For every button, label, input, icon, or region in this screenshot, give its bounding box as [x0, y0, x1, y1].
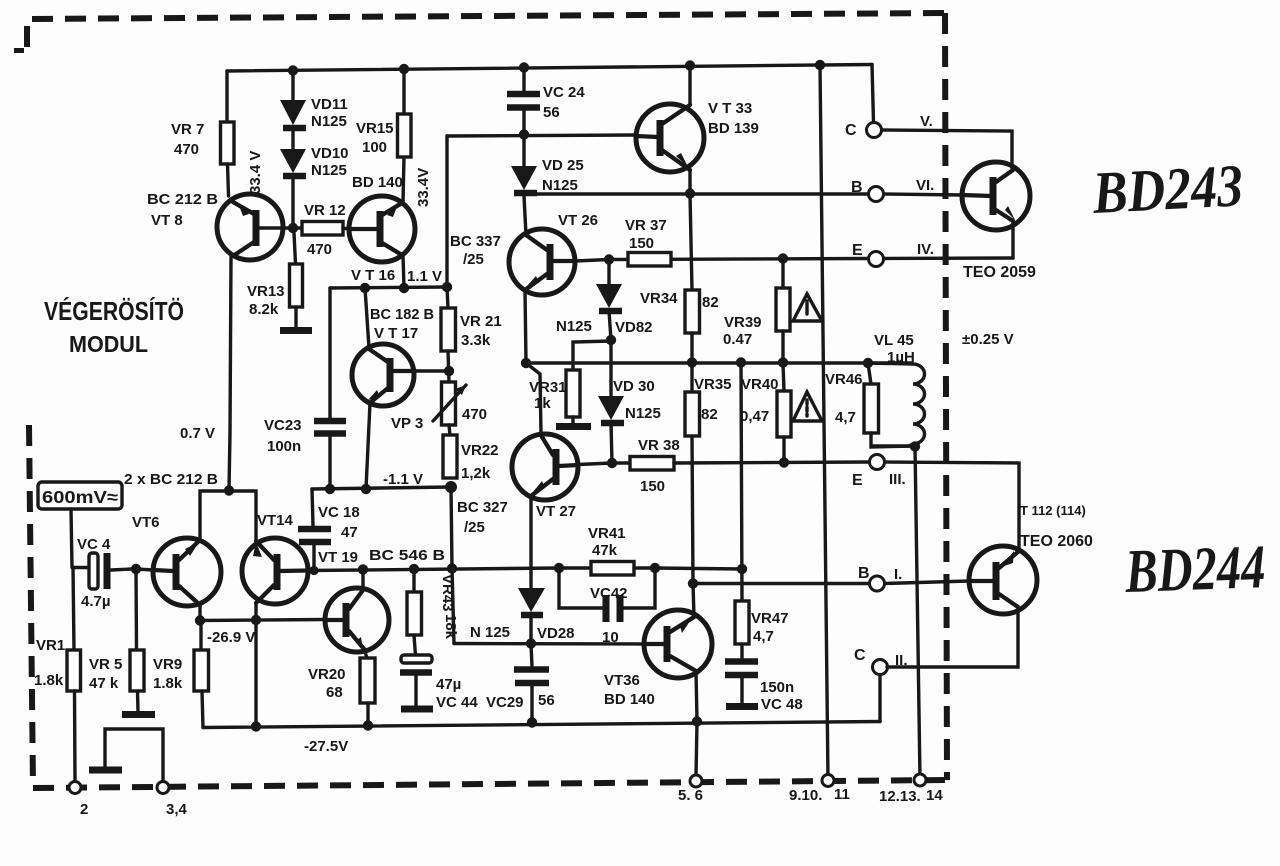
- inductor VL45: [868, 363, 925, 446]
- resistor VR13: [290, 233, 303, 327]
- svg-text:VR 21: VR 21: [460, 313, 502, 330]
- wire VT27 emitter to VD28: [529, 496, 532, 588]
- junction signal row / VC18: [309, 566, 318, 575]
- svg-text:VC 4: VC 4: [77, 536, 111, 553]
- wire emitter row (-26.9V): [200, 605, 325, 621]
- svg-text:VT14: VT14: [257, 512, 294, 529]
- terminal 5,6: [690, 775, 702, 787]
- wire B-VI row: [524, 192, 868, 195]
- svg-text:BC 182 B: BC 182 B: [370, 306, 434, 323]
- svg-text:T 112 (114): T 112 (114): [1020, 503, 1086, 518]
- svg-text:VC 48: VC 48: [761, 696, 803, 713]
- junction VT33 emitter / B row: [685, 188, 695, 198]
- svg-text:BD244: BD244: [1123, 533, 1266, 606]
- transistor VT17: [352, 344, 414, 406]
- svg-text:100n: 100n: [267, 438, 301, 455]
- wire signal row to base row link: [452, 568, 454, 644]
- wire E-IV row: [609, 259, 868, 260]
- resistor VR37: [628, 253, 671, 267]
- svg-text:VR 5: VR 5: [89, 656, 122, 673]
- module boundary dashed right edge: [945, 13, 947, 780]
- terminal C (II): [873, 660, 888, 675]
- junction top rail / supply column: [815, 60, 825, 70]
- diode VD25: [511, 135, 537, 196]
- wire VR22 node down to signal row: [451, 487, 452, 568]
- junction rail / VR20: [363, 720, 373, 730]
- wire -1.1V mid rail (VT16/VT17 node): [330, 287, 447, 288]
- svg-text:150n: 150n: [760, 679, 794, 696]
- junction lower rail / VT17 emitter: [361, 484, 371, 494]
- junction emitter row / VT14 column: [251, 615, 261, 625]
- wire supply column (pin 11): [820, 65, 828, 780]
- svg-text:VR31: VR31: [529, 379, 567, 396]
- resistor VR43: [407, 569, 422, 656]
- wire VT16 emitter down to -1.1 rail: [403, 255, 404, 288]
- junction signal row / link column: [447, 563, 457, 573]
- resistor VR31: [566, 370, 580, 417]
- resistor VR20: [360, 658, 375, 703]
- svg-text:V T 33: V T 33: [708, 100, 752, 117]
- svg-text:BC 327: BC 327: [457, 499, 508, 516]
- junction bridge / VT8 emitter column: [224, 485, 234, 495]
- wire VT36 emitter down to -27.5 rail: [696, 671, 697, 721]
- wire -1.1V lower rail: [312, 487, 451, 489]
- svg-text:470: 470: [307, 241, 332, 258]
- signal row VT14 base to VR41: [308, 568, 559, 571]
- svg-text:B: B: [851, 179, 863, 196]
- svg-text:V.: V.: [920, 113, 933, 130]
- wire VT26 collector to VD25: [524, 196, 526, 235]
- transistor BD244 / TEO2060: [969, 546, 1037, 614]
- wire VD82 node to VR31: [573, 341, 611, 370]
- svg-text:E: E: [852, 242, 863, 259]
- wire VR34 to mid rail: [690, 333, 693, 362]
- svg-text:47µ: 47µ: [436, 676, 461, 693]
- ground hook to terminal 3,4: [105, 729, 163, 783]
- wire VR21 column top (from VT33 base row): [447, 136, 448, 308]
- module boundary dashed left edge: [29, 425, 33, 786]
- junction VT17 base node: [444, 366, 454, 376]
- svg-text:VC 18: VC 18: [318, 504, 360, 521]
- junction B-I row / VT36 collector: [688, 578, 698, 588]
- wire VT33 emitter to B row: [688, 170, 691, 194]
- transistor VT6: [153, 538, 221, 606]
- svg-text:2 x BC 212 B: 2 x BC 212 B: [124, 471, 218, 488]
- capacitor VC44 electrolytic: [400, 655, 433, 709]
- wire rail to VR7: [225, 71, 228, 122]
- diode VD10: [280, 128, 306, 228]
- junction E-III row / VR40: [779, 457, 789, 467]
- svg-text:VR13: VR13: [247, 283, 285, 300]
- junction mid rail / VT26 emitter: [521, 358, 531, 368]
- svg-text:VR40: VR40: [741, 376, 779, 393]
- svg-text:33.4V: 33.4V: [415, 168, 432, 207]
- ground below VR5: [122, 711, 155, 718]
- svg-text:VC23: VC23: [264, 417, 302, 434]
- junction emitter row / VT6: [195, 615, 205, 625]
- svg-text:100: 100: [362, 139, 387, 156]
- svg-text:600mV≈: 600mV≈: [42, 487, 118, 507]
- svg-text:VR41: VR41: [588, 525, 626, 542]
- svg-text:3.3k: 3.3k: [461, 332, 491, 349]
- svg-text:VR 38: VR 38: [638, 437, 680, 454]
- svg-text:VR 7: VR 7: [171, 121, 204, 138]
- wire VR47 column from mid rail: [741, 363, 742, 601]
- svg-text:2: 2: [80, 801, 88, 818]
- svg-text:VR15: VR15: [356, 120, 394, 137]
- wire VT6-VT14 collector bridge: [200, 491, 256, 541]
- junction mid rail / VR34-VR35: [687, 357, 697, 367]
- svg-text:0,47: 0,47: [740, 408, 769, 425]
- wire VT36 collector to B-I row: [693, 583, 694, 617]
- wire VT8 emitter down to input-pair column: [229, 257, 231, 490]
- terminal E (III): [870, 455, 885, 470]
- wire VT36 emitter to terminal 5,6: [696, 722, 697, 776]
- svg-text:VD10: VD10: [311, 145, 349, 162]
- svg-text:VR43: VR43: [439, 574, 456, 612]
- svg-text:18k: 18k: [442, 614, 459, 640]
- svg-text:VP 3: VP 3: [391, 415, 423, 432]
- junction rail / VT16 emitter: [399, 283, 409, 293]
- svg-text:VC 24: VC 24: [543, 84, 585, 101]
- svg-text:VD28: VD28: [537, 625, 575, 642]
- input box 600mV: [38, 482, 122, 509]
- svg-text:VR35: VR35: [694, 376, 732, 393]
- svg-text:BD 139: BD 139: [708, 120, 759, 137]
- svg-text:56: 56: [538, 692, 555, 709]
- wire E-III row: [674, 462, 868, 463]
- svg-text:VR9: VR9: [153, 656, 182, 673]
- svg-text:N125: N125: [311, 113, 347, 130]
- svg-text:VL 45: VL 45: [874, 332, 914, 349]
- junction lower rail / VC23: [325, 484, 335, 494]
- wire E-III to BD244 emitter: [885, 462, 1019, 550]
- junction signal row / VT19 collector: [358, 564, 368, 574]
- svg-text:3,4: 3,4: [166, 801, 188, 818]
- svg-text:N125: N125: [625, 405, 661, 422]
- wire VT26 emitter down to output rail: [525, 290, 526, 363]
- capacitor VC42: [559, 568, 655, 622]
- svg-text:470: 470: [462, 406, 487, 423]
- svg-text:47 k: 47 k: [89, 675, 119, 692]
- svg-text:TEO 2059: TEO 2059: [963, 264, 1036, 281]
- svg-text:VR46: VR46: [825, 371, 863, 388]
- terminal 9,10,11: [822, 775, 834, 787]
- junction rail / VC29: [527, 717, 537, 727]
- svg-text:BD 140: BD 140: [604, 691, 655, 708]
- svg-text:47: 47: [341, 524, 358, 541]
- svg-text:8.2k: 8.2k: [249, 301, 279, 318]
- resistor VR35: [685, 363, 700, 583]
- svg-text:VT36: VT36: [604, 672, 640, 689]
- svg-text:1,2k: 1,2k: [461, 465, 491, 482]
- wire B row to BD243 base: [884, 194, 963, 195]
- svg-text:VC 44: VC 44: [436, 694, 478, 711]
- svg-text:47k: 47k: [592, 542, 618, 559]
- svg-text:0.47: 0.47: [723, 331, 752, 348]
- resistor VR7: [221, 122, 235, 164]
- transistor VT16: [349, 196, 415, 262]
- svg-text:1.8k: 1.8k: [153, 675, 183, 692]
- svg-text:5. 6: 5. 6: [678, 787, 703, 804]
- wire E row to BD243 emitter corner: [884, 256, 1013, 260]
- svg-text:-1.1 V: -1.1 V: [383, 471, 423, 488]
- svg-text:VR 12: VR 12: [304, 202, 346, 219]
- svg-text:BD243: BD243: [1090, 152, 1244, 226]
- resistor VR12: [302, 222, 343, 236]
- junction mid rail / VR46-VL45: [863, 358, 873, 368]
- junction rail / VR21 column: [442, 282, 452, 292]
- junction VR41 left: [554, 563, 564, 573]
- wire B-I row to BD244 base: [885, 581, 969, 584]
- svg-text:VD 30: VD 30: [613, 378, 655, 395]
- svg-text:9.10.: 9.10.: [789, 787, 822, 804]
- svg-text:VT 19: VT 19: [318, 549, 358, 566]
- terminal B (VI): [869, 187, 884, 202]
- svg-text:VT 27: VT 27: [536, 503, 576, 520]
- svg-text:N125: N125: [542, 177, 578, 194]
- junction VR41 right: [650, 563, 660, 573]
- module boundary dashed top edge: [27, 13, 945, 47]
- wire VR31 to end bar: [571, 417, 574, 423]
- svg-text:C: C: [845, 122, 857, 139]
- svg-text:4,7: 4,7: [835, 409, 856, 426]
- svg-text:VD82: VD82: [615, 319, 653, 336]
- svg-text:82: 82: [702, 294, 719, 311]
- svg-text:VR39: VR39: [724, 314, 762, 331]
- wire VR21 to VP3: [448, 351, 449, 382]
- svg-text:MODUL: MODUL: [69, 331, 148, 357]
- wire VT17 base: [414, 369, 449, 372]
- svg-text:11: 11: [834, 786, 850, 803]
- ground below VR13: [280, 327, 312, 334]
- diode VD11: [280, 71, 306, 128]
- svg-text:1.1 V: 1.1 V: [407, 268, 442, 285]
- junction E row / VD82: [604, 254, 614, 264]
- junction rail / VT14 column: [251, 721, 261, 731]
- svg-text:VÉGERÖSÍTÖ: VÉGERÖSÍTÖ: [44, 296, 184, 326]
- resistor VR9: [194, 621, 209, 728]
- junction E row / VR39: [778, 253, 788, 263]
- wire VT14 emitter down: [254, 603, 257, 620]
- svg-text:VR 37: VR 37: [625, 217, 667, 234]
- svg-text:BC 546 B: BC 546 B: [369, 547, 445, 564]
- junction signal row / VR43: [409, 564, 419, 574]
- svg-text:VR22: VR22: [461, 442, 499, 459]
- svg-text:VR1: VR1: [36, 637, 65, 654]
- junction VC4 / VR5 / VT6 base: [131, 564, 141, 574]
- wire VP3 to VR22: [449, 425, 450, 435]
- svg-text:VR34: VR34: [640, 290, 678, 307]
- wire VT27 collector to mid rail: [526, 363, 541, 434]
- svg-text:N125: N125: [556, 318, 592, 335]
- wire VR7 to VT8 collector: [228, 164, 229, 196]
- transistor VT36: [644, 610, 712, 678]
- wire C-II row to BD244 collector: [887, 607, 1018, 667]
- capacitor VC48: [725, 644, 758, 707]
- junction top rail / VC24: [519, 62, 529, 72]
- wire VR20 to -27.5 rail: [366, 703, 369, 724]
- wire VT16 collector to VR15: [403, 157, 404, 202]
- svg-text:E: E: [852, 472, 863, 489]
- resistor VR47: [735, 601, 749, 644]
- wire to VT6 base: [136, 569, 153, 570]
- svg-text:-27.5V: -27.5V: [304, 738, 348, 755]
- resistor VR34: [685, 290, 700, 333]
- diode VD30: [598, 340, 624, 463]
- svg-text:TEO 2060: TEO 2060: [1020, 533, 1093, 550]
- svg-text:150: 150: [640, 478, 665, 495]
- transistor VT33: [636, 104, 704, 172]
- junction VC24 / VD25 / VT33 base: [519, 129, 529, 139]
- svg-text:150: 150: [629, 235, 654, 252]
- junction mid rail / VR47 column: [736, 357, 746, 367]
- svg-text:33.4 V: 33.4 V: [247, 151, 264, 194]
- resistor VR22: [443, 435, 457, 478]
- terminal 2: [69, 782, 81, 794]
- wire C row to BD243 collector: [882, 130, 1012, 168]
- svg-text:1µH: 1µH: [887, 349, 915, 366]
- junction lower rail / VR22: [445, 481, 457, 493]
- thermal sensor triangle lower: [793, 392, 822, 421]
- junction mid rail / VR39-VR40: [778, 357, 788, 367]
- module boundary dashed bottom edge: [33, 780, 947, 788]
- capacitor VC29: [514, 644, 549, 722]
- capacitor VC18: [298, 489, 331, 570]
- svg-text:B: B: [858, 565, 870, 582]
- wire VT14 column to -27.5 rail: [254, 620, 257, 726]
- svg-text:VC29: VC29: [486, 694, 524, 711]
- wire VC23 to -1.1V rail: [328, 436, 331, 489]
- ground bar (hook): [89, 767, 122, 774]
- wire VT19 emitter to VR20: [364, 649, 367, 658]
- wire VT17 collector up: [365, 288, 369, 348]
- transistor VT26: [509, 229, 575, 295]
- wire signal row right segment: [655, 568, 742, 569]
- svg-text:N 125: N 125: [470, 624, 510, 641]
- transistor BD243 (external): [962, 162, 1030, 230]
- diode VD82: [596, 260, 622, 340]
- wire -27.5V rail: [203, 722, 880, 728]
- wire input box to input node: [71, 509, 72, 567]
- svg-text:VD 25: VD 25: [542, 157, 584, 174]
- svg-text:1k: 1k: [534, 395, 551, 412]
- svg-text:VR47: VR47: [751, 610, 789, 627]
- junction VR47 column / signal row end: [737, 564, 747, 574]
- svg-text:4,7: 4,7: [753, 628, 774, 645]
- wire VR34 column from B row: [690, 194, 692, 290]
- diode VD28: [518, 588, 545, 643]
- svg-text:C: C: [854, 647, 866, 664]
- svg-text:56: 56: [543, 104, 560, 121]
- svg-text:IV.: IV.: [917, 241, 934, 258]
- svg-text:±0.25 V: ±0.25 V: [962, 331, 1014, 348]
- svg-text:I.: I.: [894, 566, 902, 583]
- wire BD243 emitter to E row: [1011, 220, 1014, 258]
- svg-text:V T 17: V T 17: [374, 325, 418, 342]
- resistor VR46: [864, 363, 913, 447]
- svg-text:82: 82: [701, 406, 718, 423]
- svg-text:0.7 V: 0.7 V: [180, 425, 215, 442]
- transistor VT19: [325, 588, 389, 652]
- resistor VR1: [67, 567, 81, 781]
- svg-text:BD 140: BD 140: [352, 174, 403, 191]
- junction VT8 base node: [288, 223, 298, 233]
- wire input node to VC4: [72, 566, 90, 569]
- wire E-III row left segment: [612, 461, 630, 464]
- wire VT27 base to E-III node: [578, 463, 612, 465]
- capacitor VC4: [89, 553, 131, 589]
- wire VT19 collector up: [361, 569, 364, 590]
- wire output mid rail: [526, 361, 912, 364]
- capacitor VC23: [314, 421, 346, 434]
- svg-text:V T 16: V T 16: [351, 267, 395, 284]
- wire output column to terminal 14: [915, 446, 920, 779]
- resistor VR5: [130, 569, 144, 711]
- resistor VR40: [777, 363, 791, 462]
- wire rail corner down to terminal C: [872, 65, 874, 124]
- terminal 12,13,14: [914, 774, 926, 786]
- svg-text:12.13.: 12.13.: [879, 788, 921, 805]
- svg-text:14: 14: [926, 787, 943, 804]
- wire top supply rail: [227, 65, 872, 72]
- potentiometer VP3: [433, 382, 466, 425]
- svg-text:470: 470: [174, 141, 199, 158]
- capacitor VC24: [507, 67, 540, 134]
- terminal 3,4: [157, 782, 169, 794]
- wire VT36 base row: [454, 642, 644, 646]
- junction top rail / diode chain: [288, 65, 298, 75]
- svg-text:VR20: VR20: [308, 666, 346, 683]
- stray border tick: [14, 48, 24, 53]
- svg-text:4.7µ: 4.7µ: [81, 593, 111, 610]
- wire VT17 emitter down: [366, 403, 370, 489]
- ground bar below VR31: [556, 423, 591, 430]
- wire VT33 base row: [447, 135, 636, 136]
- svg-text:68: 68: [326, 684, 343, 701]
- junction top rail / VR15: [399, 64, 409, 74]
- svg-text:BC 337: BC 337: [450, 233, 501, 250]
- wire VT8 base to VR12: [258, 226, 302, 229]
- junction VL45 bottom / output column: [910, 441, 920, 451]
- svg-text:VT6: VT6: [132, 514, 160, 531]
- junction top rail / VT33 collector: [685, 60, 695, 70]
- wire rail corner up to C-II terminal: [878, 675, 881, 722]
- wire VT26 base to E row: [575, 260, 609, 262]
- svg-text:/25: /25: [463, 251, 484, 268]
- terminal B (I): [870, 576, 885, 591]
- resistor VR15: [398, 69, 412, 157]
- svg-text:/25: /25: [464, 519, 485, 536]
- svg-text:N125: N125: [311, 162, 347, 179]
- transistor VT27: [512, 434, 578, 500]
- junction VD28 / VC29 / base row: [526, 638, 536, 648]
- junction rail / VT36 emitter: [692, 716, 702, 726]
- transistor VT8: [217, 194, 283, 260]
- resistor VR38: [630, 457, 674, 471]
- wire VC23 column upper: [328, 288, 331, 418]
- wire B-I row: [693, 582, 869, 585]
- svg-text:VC42: VC42: [590, 585, 628, 602]
- svg-text:-26.9 V: -26.9 V: [207, 629, 255, 646]
- terminal C (V): [867, 123, 882, 138]
- svg-text:10: 10: [602, 629, 619, 646]
- svg-text:VT 8: VT 8: [151, 212, 183, 229]
- transistor VT14: [242, 538, 308, 604]
- svg-text:VI.: VI.: [916, 177, 934, 194]
- resistor VR21: [441, 308, 456, 351]
- junction rail / VT17 collector: [360, 283, 370, 293]
